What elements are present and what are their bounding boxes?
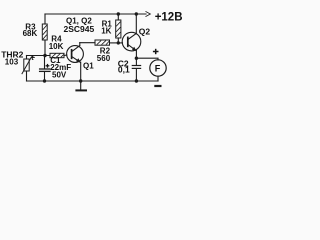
label motor plus xyxy=(153,49,159,54)
transistor Q1 xyxy=(67,46,84,63)
svg-text:103: 103 xyxy=(5,58,19,67)
resistor R3 xyxy=(42,24,47,40)
wire R4 to Q1 base xyxy=(64,54,67,57)
node dot R1-R2-Q2 base xyxy=(117,41,120,44)
svg-text:2SC945: 2SC945 xyxy=(64,24,95,34)
node dot rail-Q2 collector xyxy=(135,12,138,15)
svg-text:F: F xyxy=(155,63,161,73)
label C1 plus xyxy=(46,64,50,68)
node dot Q2 emitter / C2 xyxy=(135,57,138,60)
resistor R1 xyxy=(117,14,119,20)
wire top rail +12V xyxy=(45,13,146,15)
capacitor C1 xyxy=(44,56,46,69)
node dot A (R3/R4/THR2/C1) xyxy=(43,54,46,57)
svg-text:10K: 10K xyxy=(49,42,64,51)
wire R2 to Q2 base xyxy=(110,42,123,44)
wire emitter node to motor xyxy=(136,58,158,60)
label motor minus xyxy=(154,85,161,87)
motor F xyxy=(150,60,166,76)
ground xyxy=(80,81,82,90)
svg-text:0,1: 0,1 xyxy=(118,65,130,75)
wire node A horizontal xyxy=(27,55,51,57)
wire Q2 emitter down xyxy=(135,51,137,59)
wire Q1 collector to R2 xyxy=(80,42,95,44)
thermistor THR2 xyxy=(26,56,28,60)
capacitor C2 xyxy=(135,58,137,65)
node dot rail-R1 xyxy=(117,12,120,15)
wire R3 bottom stub xyxy=(44,40,46,56)
wire Q1 emitter down xyxy=(80,62,82,81)
resistor R2 xyxy=(95,40,110,45)
wire bottom rail xyxy=(27,80,159,82)
resistor R4 xyxy=(50,53,64,57)
svg-text:Q1: Q1 xyxy=(83,62,94,71)
node dot C2-rail xyxy=(135,79,138,82)
svg-text:68K: 68K xyxy=(23,29,38,38)
svg-text:50V: 50V xyxy=(52,70,67,79)
svg-text:560: 560 xyxy=(97,54,111,63)
node dot C1-rail xyxy=(43,79,46,82)
Q2 emitter arrow xyxy=(132,47,137,51)
svg-text:Q2: Q2 xyxy=(139,26,151,36)
transistor Q2 xyxy=(122,32,141,51)
svg-text:1K: 1K xyxy=(101,26,111,35)
svg-text:+12B: +12B xyxy=(155,12,183,24)
Q1 emitter arrow xyxy=(76,58,81,62)
node dot Q1 emitter-rail xyxy=(79,79,82,82)
wire arrow head xyxy=(146,12,150,17)
wire R3 top stub xyxy=(44,14,46,24)
